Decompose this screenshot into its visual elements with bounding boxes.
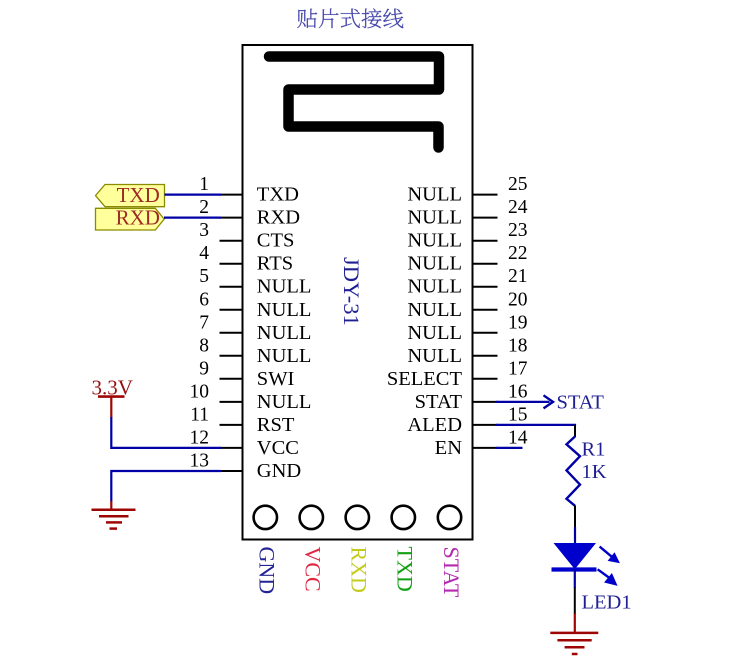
svg-text:NULL: NULL (257, 322, 312, 344)
pad circle GND (254, 506, 277, 529)
svg-text:TXD: TXD (393, 547, 418, 592)
svg-text:GND: GND (257, 460, 301, 482)
pin 12 stub (220, 447, 244, 449)
svg-text:NULL: NULL (407, 276, 462, 298)
wire pin 16 STAT (496, 401, 550, 403)
resistor R1 (567, 437, 581, 506)
svg-text:18: 18 (508, 335, 528, 356)
pad circle VCC (300, 506, 323, 529)
svg-text:8: 8 (199, 335, 209, 356)
pin 9 stub (220, 378, 244, 380)
R1 top pin (574, 425, 576, 437)
pin 11 stub (220, 424, 244, 426)
pin 10 stub (220, 401, 244, 403)
svg-text:RXD: RXD (116, 206, 160, 230)
svg-text:VCC: VCC (301, 547, 326, 592)
svg-text:RTS: RTS (257, 253, 293, 275)
svg-text:20: 20 (508, 289, 528, 310)
wire TXD flag to pin 1 (165, 194, 222, 196)
ground stem right (574, 614, 576, 634)
antenna zigzag (269, 57, 439, 148)
LED1 bottom pin (574, 588, 576, 615)
ground stem left (110, 501, 112, 510)
svg-text:4: 4 (199, 243, 209, 264)
svg-text:10: 10 (190, 381, 210, 402)
ground symbol right (550, 633, 598, 654)
svg-text:TXD: TXD (117, 183, 160, 207)
svg-text:NULL: NULL (257, 391, 312, 413)
svg-text:6: 6 (199, 289, 209, 310)
module U1 JDY-31 body (243, 45, 473, 540)
title 贴片式接线 (297, 8, 403, 28)
pin 24 stub (473, 217, 498, 219)
svg-text:17: 17 (508, 358, 528, 379)
pin 22 stub (473, 263, 498, 265)
svg-text:21: 21 (508, 266, 528, 287)
svg-text:7: 7 (199, 312, 209, 333)
LED1 cathode bar (552, 567, 597, 571)
svg-text:NULL: NULL (407, 253, 462, 275)
svg-text:23: 23 (508, 220, 528, 241)
svg-text:16: 16 (508, 381, 528, 402)
net flag TXD (96, 185, 165, 207)
pin 5 stub (220, 286, 244, 288)
svg-text:STAT: STAT (439, 547, 464, 598)
ground symbol left (92, 510, 136, 529)
svg-text:TXD: TXD (257, 184, 299, 206)
wire pin 13 to ground (111, 471, 221, 502)
svg-text:9: 9 (199, 358, 209, 379)
svg-text:SELECT: SELECT (387, 368, 463, 390)
svg-text:SWI: SWI (257, 368, 295, 390)
pin 14 stub (473, 447, 498, 449)
power 3.3V stem (110, 397, 112, 418)
svg-text:NULL: NULL (257, 299, 312, 321)
pin 4 stub (220, 263, 244, 265)
svg-text:1K: 1K (582, 461, 607, 483)
pin 1 stub (220, 194, 244, 196)
pin 15 stub (473, 424, 498, 426)
wire 3.3V to pin 12 (111, 417, 221, 448)
pin 7 stub (220, 332, 244, 334)
svg-text:ALED: ALED (407, 414, 462, 436)
R1 bottom pin (574, 506, 576, 528)
svg-text:1: 1 (199, 174, 209, 195)
wire R1 to LED1 (574, 527, 576, 544)
svg-text:15: 15 (508, 404, 528, 425)
svg-text:22: 22 (508, 243, 528, 264)
svg-text:CTS: CTS (257, 230, 295, 252)
svg-text:RXD: RXD (257, 207, 300, 229)
svg-text:3: 3 (199, 220, 209, 241)
svg-text:24: 24 (508, 197, 528, 218)
svg-text:14: 14 (508, 427, 528, 448)
pin 23 stub (473, 240, 498, 242)
pad circle RXD (346, 506, 369, 529)
svg-text:11: 11 (190, 404, 209, 425)
svg-text:NULL: NULL (407, 207, 462, 229)
pin 21 stub (473, 286, 498, 288)
svg-text:25: 25 (508, 174, 528, 195)
pin 3 stub (220, 240, 244, 242)
svg-text:RST: RST (257, 414, 295, 436)
svg-text:VCC: VCC (257, 437, 299, 459)
svg-text:NULL: NULL (257, 345, 312, 367)
svg-text:STAT: STAT (557, 392, 605, 414)
power 3.3V bar (98, 395, 125, 398)
pin 25 stub (473, 194, 498, 196)
LED1 triangle (554, 543, 597, 569)
svg-text:LED1: LED1 (582, 592, 632, 614)
pin 8 stub (220, 355, 244, 357)
svg-text:R1: R1 (582, 438, 606, 460)
svg-text:2: 2 (199, 197, 209, 218)
svg-text:NULL: NULL (407, 299, 462, 321)
pin 2 stub (220, 217, 244, 219)
svg-text:RXD: RXD (347, 547, 372, 593)
wire pin 14 EN (496, 447, 523, 449)
arrow STAT (544, 395, 554, 408)
wire RXD flag to pin 2 (164, 217, 221, 219)
pin 6 stub (220, 309, 244, 311)
svg-text:5: 5 (199, 266, 209, 287)
wire pin 15 ALED to R1 (496, 425, 575, 426)
svg-text:NULL: NULL (407, 322, 462, 344)
svg-text:NULL: NULL (407, 184, 462, 206)
net flag RXD (96, 208, 165, 230)
pad circle TXD (392, 506, 415, 529)
svg-text:NULL: NULL (257, 276, 312, 298)
pin 20 stub (473, 309, 498, 311)
svg-text:STAT: STAT (415, 391, 463, 413)
pad circle STAT (438, 506, 461, 529)
pin 19 stub (473, 332, 498, 334)
pin 17 stub (473, 378, 498, 380)
svg-text:NULL: NULL (407, 230, 462, 252)
svg-text:JDY-31: JDY-31 (339, 257, 364, 326)
pin 16 stub (473, 401, 498, 403)
svg-text:19: 19 (508, 312, 528, 333)
svg-text:12: 12 (190, 427, 210, 448)
svg-text:13: 13 (190, 451, 210, 472)
pin 13 stub (220, 470, 244, 472)
svg-text:NULL: NULL (407, 345, 462, 367)
svg-text:GND: GND (255, 547, 280, 595)
LED1 anode pin (574, 569, 576, 588)
svg-text:EN: EN (435, 437, 463, 459)
LED1 arrows (598, 547, 618, 585)
pin 18 stub (473, 355, 498, 357)
